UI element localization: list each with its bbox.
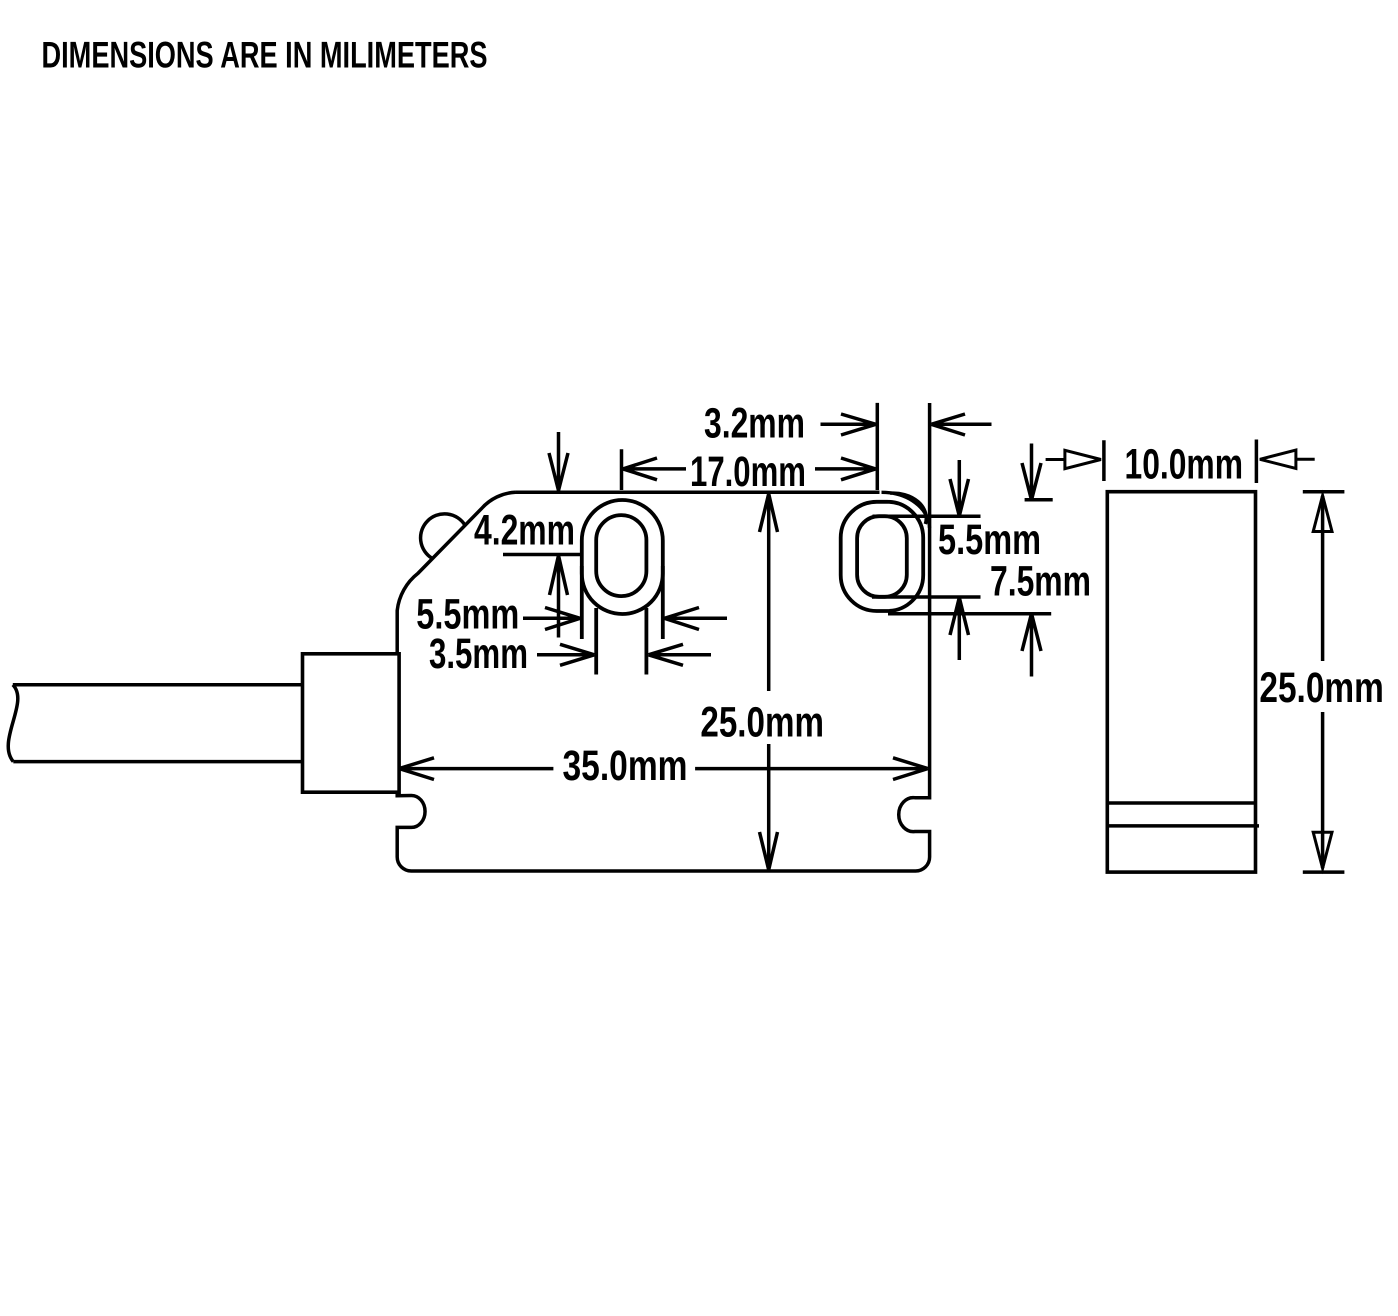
cable break squiggle (8, 685, 18, 762)
switch body outline (397, 403, 929, 871)
dim 10.0mm left arrow (1046, 450, 1101, 468)
slot B inner obround (857, 516, 907, 597)
svg-text:25.0mm: 25.0mm (1259, 664, 1383, 712)
dim 35.0mm arrowheads (399, 758, 928, 780)
slot B outer opening (841, 502, 924, 611)
dim 5.5mm left arrows (523, 608, 727, 630)
dim 4.2mm line (503, 553, 580, 557)
cable connector (303, 654, 400, 792)
dim 3.5mm arrows (537, 644, 711, 665)
svg-text:DIMENSIONS ARE IN MILIMETERS: DIMENSIONS ARE IN MILIMETERS (42, 34, 488, 76)
dim 35.0mm line (400, 767, 928, 771)
svg-text:17.0mm: 17.0mm (690, 448, 806, 496)
svg-text:3.2mm: 3.2mm (704, 400, 805, 448)
cable top line (13, 683, 303, 687)
dim 3.2mm arrows (821, 414, 992, 435)
svg-text:25.0mm: 25.0mm (700, 699, 824, 747)
magnet outline (1107, 492, 1255, 872)
dim 7.5mm arrows (1022, 444, 1041, 677)
svg-text:35.0mm: 35.0mm (563, 742, 688, 790)
dim magnet 25.0mm line (1321, 496, 1325, 868)
dim magnet 25.0mm ticks (1303, 492, 1345, 872)
dim 5.5mm right arrows (950, 460, 969, 660)
dim body 25.0mm arrowheads (760, 494, 778, 870)
slot A inner obround (596, 515, 646, 596)
magnet lower line 1 (1107, 801, 1255, 805)
svg-text:3.5mm: 3.5mm (429, 630, 528, 678)
slot A outer side extensions (582, 566, 663, 639)
dim 4.2mm up arrow (550, 556, 568, 638)
dim magnet 25.0mm arrowheads (1313, 496, 1332, 869)
magnet lower line 2 (1107, 824, 1259, 828)
dim 4.2mm down arrow (549, 432, 568, 491)
dim 10.0mm right arrow (1260, 450, 1315, 468)
slot A outer obround (582, 500, 663, 614)
dim 10.0mm ticks (1104, 440, 1257, 484)
LED bump on chamfer (421, 514, 465, 558)
cable bottom line (13, 760, 302, 764)
dim 5.5mm right extension lines (872, 516, 981, 597)
svg-text:5.5mm: 5.5mm (938, 516, 1041, 564)
slot B corner lip arcs (882, 492, 930, 528)
dim 17.0mm extension lines (622, 403, 878, 490)
svg-text:10.0mm: 10.0mm (1125, 441, 1244, 489)
svg-text:7.5mm: 7.5mm (990, 558, 1091, 606)
dim body 25.0mm vertical line (767, 496, 771, 868)
dim 17.0mm arrows (623, 458, 876, 480)
slot A channel lines (596, 608, 646, 675)
svg-text:4.2mm: 4.2mm (474, 507, 575, 555)
dim 7.5mm extension lines (888, 500, 1053, 614)
